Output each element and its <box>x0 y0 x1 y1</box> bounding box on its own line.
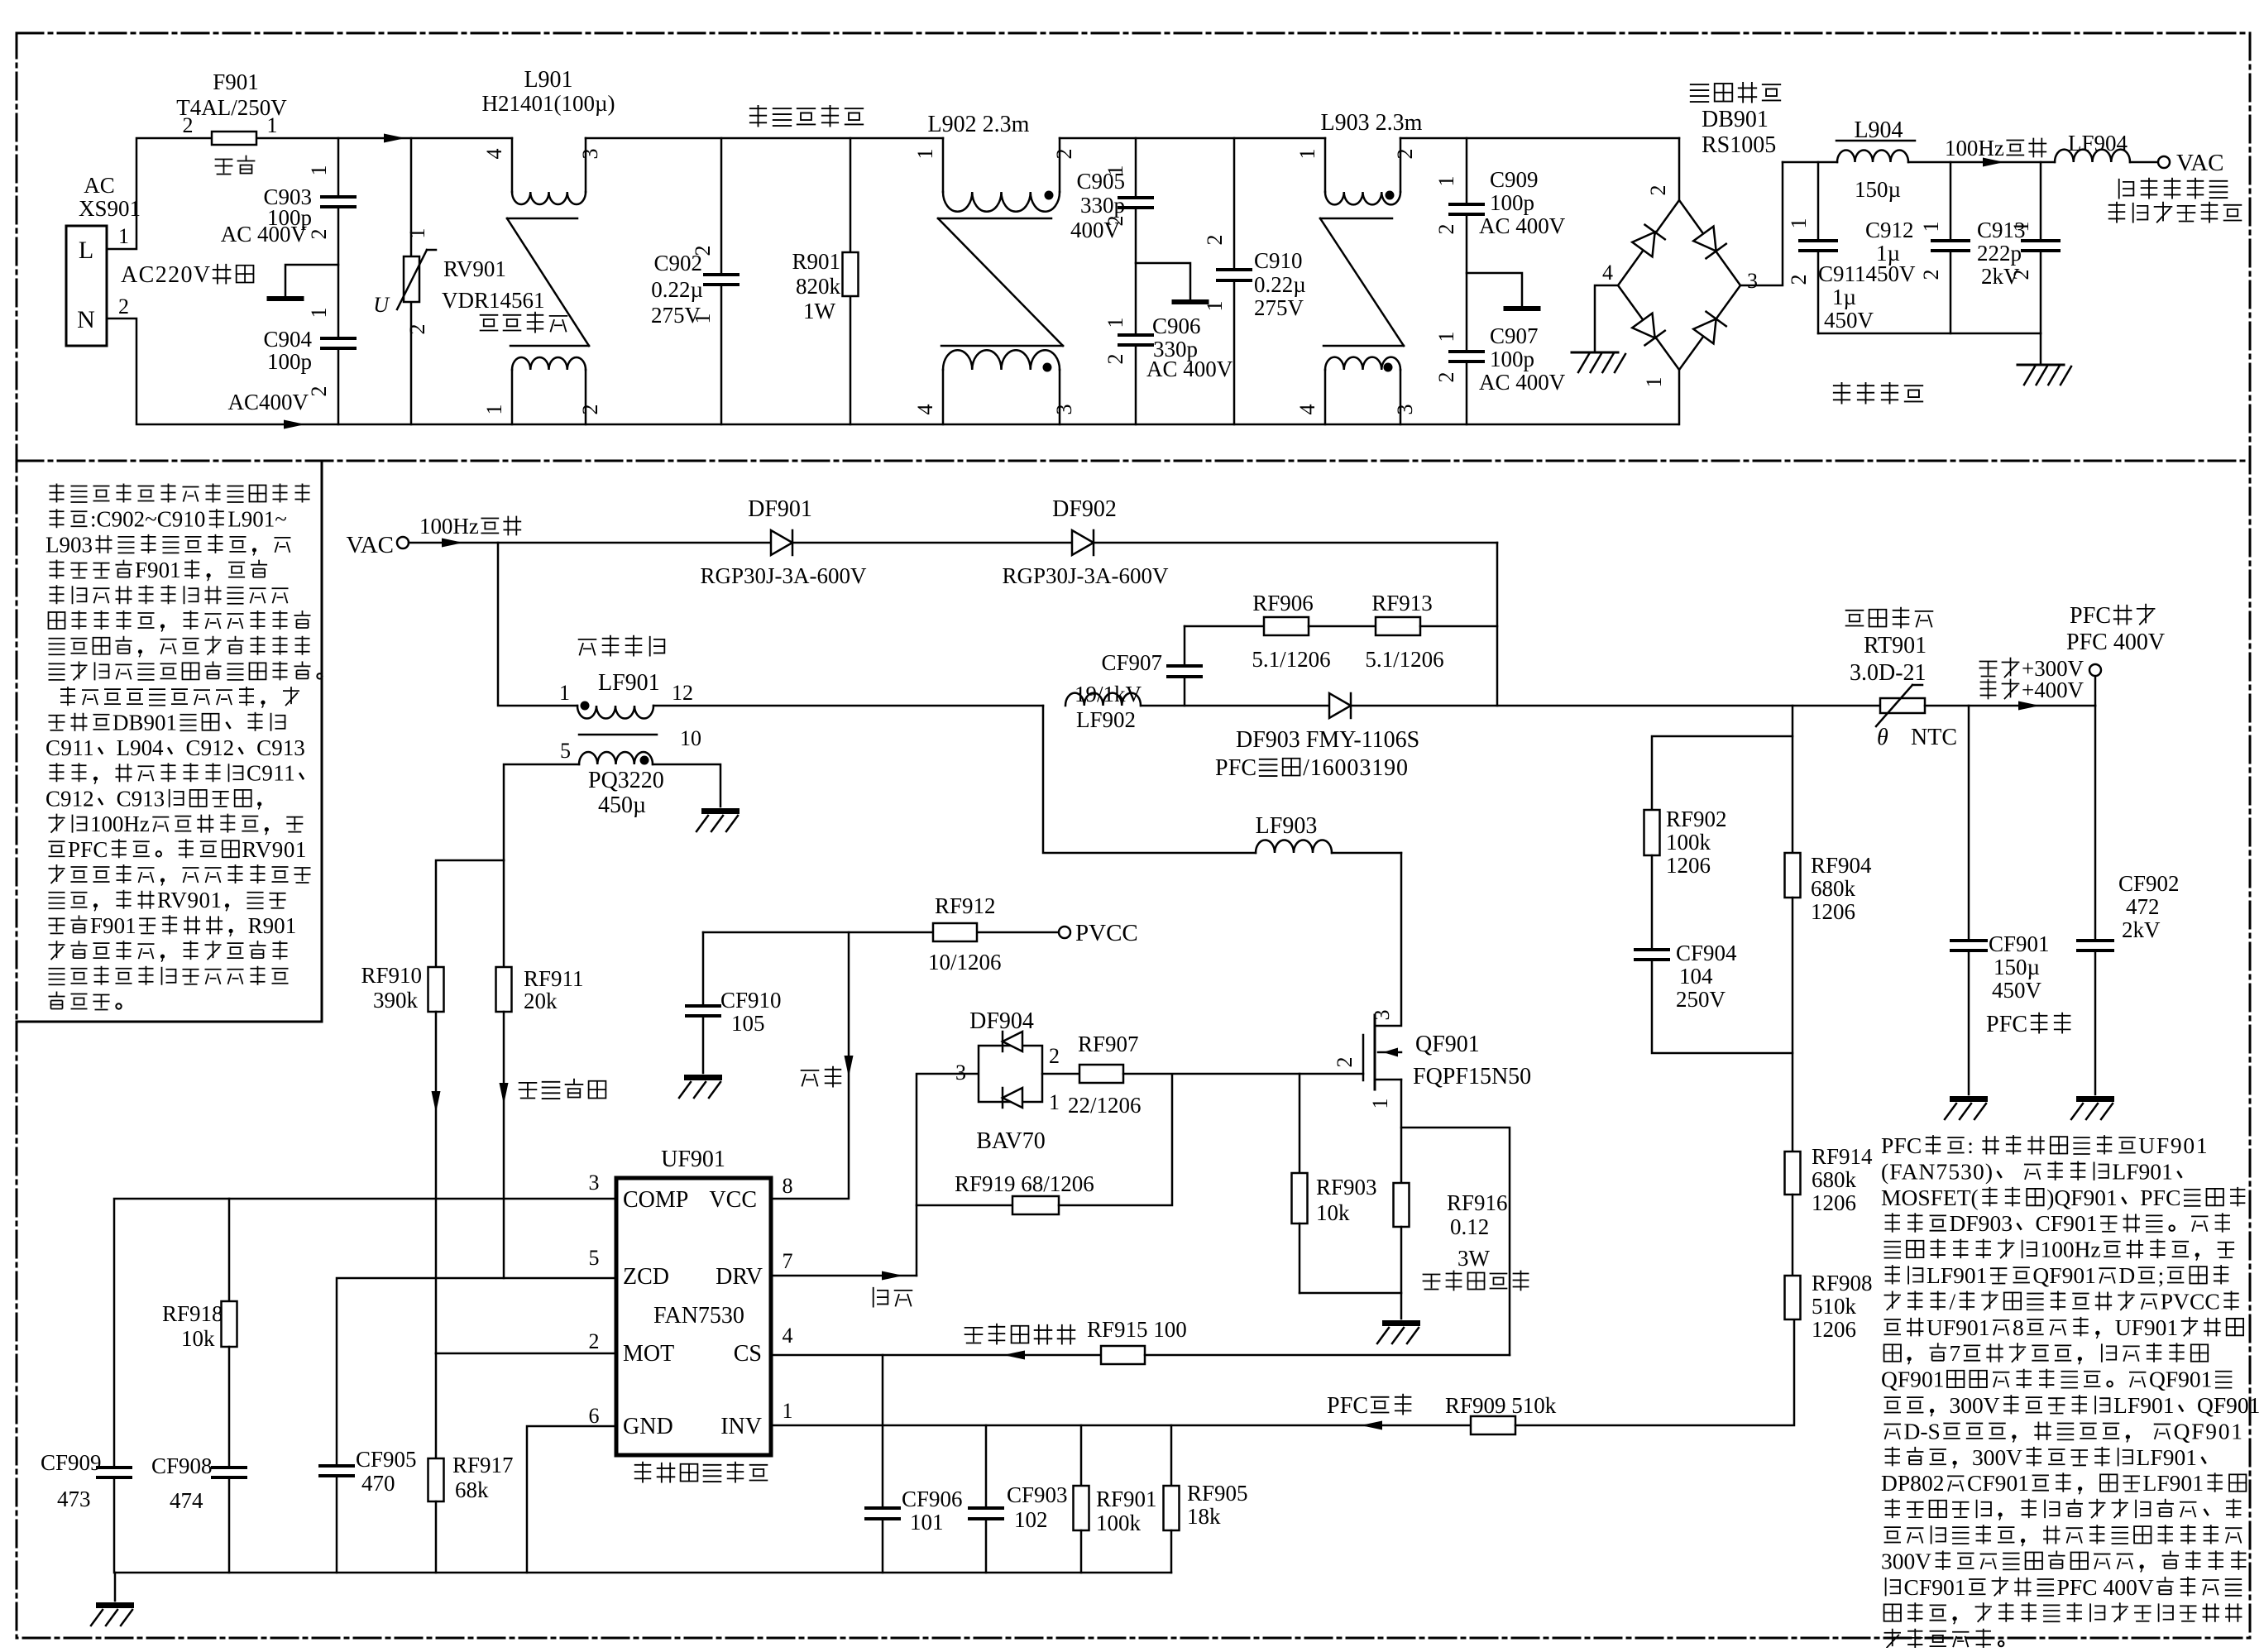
svg-text:CF901: CF901 <box>1989 931 2050 956</box>
svg-text:LF901: LF901 <box>2113 1392 2174 1418</box>
svg-text:2: 2 <box>405 324 429 335</box>
svg-text:8: 8 <box>2013 1314 2024 1340</box>
svg-text:3: 3 <box>578 149 602 160</box>
svg-text:3: 3 <box>589 1171 600 1195</box>
svg-text:2: 2 <box>307 229 331 240</box>
svg-text:CF901: CF901 <box>1904 1574 1966 1600</box>
svg-text:PQ3220: PQ3220 <box>588 768 664 793</box>
svg-text:AC 400V: AC 400V <box>1146 357 1233 381</box>
svg-text:4: 4 <box>482 149 506 160</box>
svg-text:DB901: DB901 <box>1702 107 1769 132</box>
svg-text:C912: C912 <box>45 786 94 811</box>
svg-text:N: N <box>77 306 95 333</box>
svg-text:L901: L901 <box>524 67 572 93</box>
svg-text:20k: 20k <box>524 989 558 1013</box>
svg-text:RF906: RF906 <box>1252 591 1314 615</box>
svg-text:0.22µ: 0.22µ <box>1254 272 1306 297</box>
svg-text:2kV: 2kV <box>2122 917 2161 942</box>
svg-text:2: 2 <box>1052 149 1076 160</box>
svg-text:CF908: CF908 <box>151 1453 213 1478</box>
svg-text:100k: 100k <box>1096 1511 1142 1535</box>
svg-text:0.12: 0.12 <box>1450 1214 1489 1239</box>
svg-text:L903 2.3m: L903 2.3m <box>1321 110 1423 136</box>
svg-text:DP802: DP802 <box>1881 1470 1944 1496</box>
svg-text:(FAN7530): (FAN7530) <box>1881 1158 1993 1184</box>
svg-text:1: 1 <box>1103 318 1127 328</box>
svg-text:820k: 820k <box>796 274 841 299</box>
svg-text:472: 472 <box>2126 894 2160 919</box>
svg-text:5: 5 <box>589 1246 600 1270</box>
svg-text:DF903 FMY-1106S: DF903 FMY-1106S <box>1236 727 1419 753</box>
svg-text:100p: 100p <box>1490 347 1534 371</box>
svg-text:1: 1 <box>1787 218 1811 229</box>
svg-text:RF908: RF908 <box>1812 1271 1873 1295</box>
svg-text:680k: 680k <box>1812 1167 1857 1192</box>
svg-text:/: / <box>1950 1288 1956 1314</box>
svg-text:H21401(100µ): H21401(100µ) <box>481 91 615 116</box>
svg-text:CF902: CF902 <box>2118 871 2180 896</box>
svg-text:C911450V: C911450V <box>1818 261 1916 286</box>
svg-text:7: 7 <box>783 1249 793 1273</box>
svg-text:VAC: VAC <box>2176 150 2224 176</box>
svg-text:1: 1 <box>1295 149 1319 160</box>
svg-text:2: 2 <box>1434 224 1458 235</box>
svg-text:1: 1 <box>1049 1090 1060 1114</box>
svg-text:QF901: QF901 <box>2174 1418 2242 1444</box>
svg-text:U: U <box>373 293 390 317</box>
svg-text:UF901: UF901 <box>2115 1314 2178 1340</box>
svg-text:100p: 100p <box>1490 190 1534 215</box>
svg-text:10k: 10k <box>181 1326 215 1351</box>
svg-text:DRV: DRV <box>716 1264 763 1290</box>
svg-text::: : <box>1967 1132 1974 1158</box>
svg-text:DB901: DB901 <box>112 710 177 735</box>
svg-text:PVCC: PVCC <box>1075 920 1138 946</box>
svg-text:390k: 390k <box>373 988 419 1013</box>
svg-text:3: 3 <box>1747 269 1758 293</box>
svg-text:7: 7 <box>1950 1340 1961 1366</box>
svg-text:1: 1 <box>691 314 715 324</box>
svg-text:AC400V: AC400V <box>227 390 309 414</box>
svg-text:4: 4 <box>1295 405 1319 415</box>
svg-text:2: 2 <box>1103 354 1127 365</box>
svg-text:RF916: RF916 <box>1447 1190 1508 1215</box>
svg-text:2: 2 <box>183 113 194 137</box>
svg-text::C902~C910: :C902~C910 <box>90 507 205 532</box>
svg-text:RF915 100: RF915 100 <box>1087 1317 1187 1342</box>
svg-text:101: 101 <box>910 1510 944 1535</box>
svg-text:PFC: PFC <box>68 837 108 862</box>
svg-text:RF902: RF902 <box>1666 807 1727 831</box>
svg-text:C912: C912 <box>186 735 235 760</box>
svg-text:PVCC: PVCC <box>2161 1288 2220 1314</box>
svg-text:1µ: 1µ <box>1832 285 1856 309</box>
svg-text:PFC: PFC <box>1986 1012 2027 1037</box>
svg-text:CF910: CF910 <box>720 988 782 1013</box>
svg-text:C906: C906 <box>1152 314 1201 338</box>
svg-text:2: 2 <box>1103 216 1127 227</box>
svg-text:LF901: LF901 <box>1927 1262 1987 1288</box>
svg-text:1: 1 <box>783 1399 793 1423</box>
svg-text:FQPF15N50: FQPF15N50 <box>1413 1064 1531 1089</box>
svg-text:18k: 18k <box>1187 1504 1221 1529</box>
svg-text:GND: GND <box>623 1414 673 1439</box>
svg-text:470: 470 <box>361 1471 395 1496</box>
svg-text:CF901: CF901 <box>1967 1470 2029 1496</box>
svg-text:L902 2.3m: L902 2.3m <box>928 112 1030 137</box>
svg-text:1206: 1206 <box>1811 899 1855 924</box>
svg-text:CF906: CF906 <box>902 1487 963 1511</box>
svg-text:100Hz: 100Hz <box>90 812 150 836</box>
svg-text:AC 400V: AC 400V <box>1479 213 1566 238</box>
svg-text:RF912: RF912 <box>935 893 996 918</box>
svg-text:L904: L904 <box>1854 117 1903 143</box>
svg-text:222p: 222p <box>1977 241 2022 266</box>
svg-text:150µ: 150µ <box>1855 177 1901 202</box>
svg-text:2: 2 <box>2009 270 2033 280</box>
svg-text:RF917: RF917 <box>452 1453 514 1477</box>
svg-text:LF901: LF901 <box>2137 1444 2197 1470</box>
svg-text:3: 3 <box>1370 1010 1394 1021</box>
svg-text:L904: L904 <box>117 735 164 760</box>
svg-text:2: 2 <box>1049 1044 1060 1068</box>
svg-text:AC: AC <box>84 173 115 198</box>
svg-text:LF901: LF901 <box>2112 1158 2172 1184</box>
svg-text:2: 2 <box>1787 275 1811 285</box>
svg-text:UF901: UF901 <box>2138 1132 2207 1158</box>
svg-text:QF901: QF901 <box>2149 1367 2212 1392</box>
svg-text:1W: 1W <box>803 299 836 323</box>
svg-text:5.1/1206: 5.1/1206 <box>1252 647 1330 672</box>
svg-text:105: 105 <box>731 1011 765 1036</box>
svg-text:VAC: VAC <box>347 532 395 558</box>
svg-text:FAN7530: FAN7530 <box>653 1303 744 1329</box>
svg-text:6: 6 <box>589 1404 600 1428</box>
svg-text:2: 2 <box>307 386 331 397</box>
svg-text:1: 1 <box>307 165 331 176</box>
svg-text:450µ: 450µ <box>598 792 646 818</box>
svg-text:CF905: CF905 <box>356 1447 417 1472</box>
svg-text:+400V: +400V <box>2022 678 2085 702</box>
svg-text:CF909: CF909 <box>41 1450 102 1475</box>
svg-text:C904: C904 <box>263 327 312 352</box>
svg-text:150µ: 150µ <box>1994 955 2040 979</box>
svg-text:68k: 68k <box>455 1477 489 1502</box>
svg-text:PFC: PFC <box>1881 1132 1922 1158</box>
svg-text:COMP: COMP <box>623 1187 688 1213</box>
svg-text:AC 400V: AC 400V <box>221 222 308 247</box>
svg-text:RF903: RF903 <box>1316 1175 1377 1199</box>
svg-text:PFC: PFC <box>2140 1185 2180 1210</box>
svg-text:CF907: CF907 <box>1101 650 1162 675</box>
svg-text:MOSFET(: MOSFET( <box>1881 1185 1979 1210</box>
svg-text:DF902: DF902 <box>1052 496 1117 522</box>
svg-text:CS: CS <box>734 1341 762 1367</box>
svg-text:2: 2 <box>589 1329 600 1353</box>
svg-text:2: 2 <box>1333 1057 1357 1068</box>
svg-text:100k: 100k <box>1666 830 1711 855</box>
svg-text:2: 2 <box>1646 185 1670 196</box>
svg-text:RF911: RF911 <box>524 966 584 991</box>
svg-text:1: 1 <box>267 113 278 137</box>
svg-text:22/1206: 22/1206 <box>1068 1093 1142 1118</box>
svg-text:1: 1 <box>1103 165 1127 176</box>
svg-text:10k: 10k <box>1316 1200 1350 1225</box>
svg-text:R901: R901 <box>792 249 840 274</box>
svg-text:1: 1 <box>482 405 506 415</box>
svg-text:300V: 300V <box>1972 1444 2022 1470</box>
svg-text:ZCD: ZCD <box>623 1264 669 1290</box>
svg-text:RF918: RF918 <box>162 1301 223 1326</box>
svg-text:2: 2 <box>691 246 715 256</box>
svg-text:RF914: RF914 <box>1812 1144 1873 1169</box>
svg-text:1: 1 <box>405 228 429 239</box>
svg-text:2: 2 <box>118 294 129 318</box>
svg-text:1: 1 <box>559 681 570 705</box>
svg-text:RS1005: RS1005 <box>1702 132 1776 158</box>
svg-text:PFC 400V: PFC 400V <box>2057 1574 2154 1600</box>
svg-text:DF901: DF901 <box>748 496 812 522</box>
svg-text:1: 1 <box>1434 332 1458 342</box>
svg-text:1: 1 <box>1919 222 1943 232</box>
svg-text:C911: C911 <box>45 735 94 760</box>
svg-text:10/1206: 10/1206 <box>928 950 1002 974</box>
svg-text:RF919 68/1206: RF919 68/1206 <box>955 1171 1094 1196</box>
svg-text:12: 12 <box>672 681 693 705</box>
svg-text:CF904: CF904 <box>1676 941 1737 965</box>
svg-text:AC 400V: AC 400V <box>1479 370 1566 395</box>
svg-text:UF901: UF901 <box>661 1147 725 1172</box>
svg-text:MOT: MOT <box>623 1341 674 1367</box>
svg-text:300V: 300V <box>1950 1392 2000 1418</box>
svg-text:VDR14561: VDR14561 <box>442 288 545 313</box>
svg-text:4: 4 <box>913 405 937 415</box>
svg-text:1: 1 <box>1434 176 1458 187</box>
svg-text:5.1/1206: 5.1/1206 <box>1365 647 1443 672</box>
svg-text:QF901: QF901 <box>2197 1392 2260 1418</box>
svg-text:F901: F901 <box>135 558 181 582</box>
svg-text:θ: θ <box>1877 725 1888 750</box>
svg-text:474: 474 <box>170 1488 203 1513</box>
svg-text:450V: 450V <box>1824 308 1874 333</box>
svg-text:DF904: DF904 <box>969 1008 1034 1034</box>
svg-text:RV901: RV901 <box>242 837 306 862</box>
svg-text:2: 2 <box>578 405 602 415</box>
svg-text:LF902: LF902 <box>1076 707 1136 732</box>
svg-text:F901: F901 <box>90 913 136 938</box>
svg-text:QF901: QF901 <box>1415 1032 1480 1057</box>
svg-text:3: 3 <box>1393 405 1417 415</box>
svg-text:DF903: DF903 <box>1950 1210 2013 1236</box>
svg-text:LF903: LF903 <box>1256 813 1318 839</box>
svg-text:1: 1 <box>1642 377 1666 388</box>
svg-text:CF903: CF903 <box>1007 1482 1068 1507</box>
svg-text:450V: 450V <box>1992 978 2042 1003</box>
svg-text:1206: 1206 <box>1812 1190 1856 1215</box>
svg-text:RF901: RF901 <box>1096 1487 1157 1511</box>
svg-text:RV901: RV901 <box>157 888 222 912</box>
svg-text:100Hz: 100Hz <box>1945 136 2004 160</box>
svg-text:4: 4 <box>783 1324 793 1348</box>
svg-text:RF910: RF910 <box>361 963 422 988</box>
svg-text:473: 473 <box>57 1487 91 1511</box>
svg-text:QF901: QF901 <box>1881 1367 1944 1392</box>
svg-text:RT901: RT901 <box>1864 633 1927 658</box>
svg-text:PFC: PFC <box>2070 603 2111 629</box>
svg-text:C911: C911 <box>247 761 295 786</box>
svg-text:330p: 330p <box>1080 193 1125 218</box>
svg-text:100Hz: 100Hz <box>419 514 479 539</box>
svg-text:AC220V: AC220V <box>121 262 210 288</box>
svg-text:RV901: RV901 <box>443 256 506 281</box>
svg-text:8: 8 <box>783 1174 793 1198</box>
svg-text:RF913: RF913 <box>1371 591 1433 615</box>
svg-text:1: 1 <box>1203 301 1227 312</box>
svg-text:C910: C910 <box>1254 248 1303 273</box>
svg-text:PFC 400V: PFC 400V <box>2066 630 2165 655</box>
svg-text:C913: C913 <box>256 735 305 760</box>
svg-text:D: D <box>2118 1262 2135 1288</box>
svg-text:C913: C913 <box>117 786 165 811</box>
svg-text:LF901: LF901 <box>2143 1470 2204 1496</box>
svg-text:2: 2 <box>1203 235 1227 246</box>
svg-text:L: L <box>79 237 93 264</box>
svg-text:/16003190: /16003190 <box>1303 755 1408 781</box>
svg-text:275V: 275V <box>1254 295 1304 320</box>
svg-text:RGP30J-3A-600V: RGP30J-3A-600V <box>700 563 867 588</box>
svg-text:C912: C912 <box>1865 218 1914 242</box>
svg-text:680k: 680k <box>1811 876 1856 901</box>
svg-text:L901~: L901~ <box>227 507 287 532</box>
svg-text:3: 3 <box>1052 405 1076 415</box>
svg-text:NTC: NTC <box>1911 725 1957 750</box>
svg-text:RF907: RF907 <box>1078 1032 1139 1056</box>
svg-text:250V: 250V <box>1676 987 1726 1012</box>
svg-text:1: 1 <box>307 308 331 318</box>
svg-text:C907: C907 <box>1490 323 1539 348</box>
svg-text:0.22µ: 0.22µ <box>651 277 703 302</box>
svg-text:XS901: XS901 <box>79 196 141 221</box>
svg-text:102: 102 <box>1014 1507 1048 1532</box>
svg-text:1206: 1206 <box>1812 1317 1856 1342</box>
svg-text:3: 3 <box>955 1061 966 1085</box>
svg-text:L903: L903 <box>45 532 93 557</box>
svg-text:104: 104 <box>1679 964 1713 989</box>
svg-text:1: 1 <box>1368 1099 1392 1109</box>
svg-text:RF909 510k: RF909 510k <box>1445 1393 1557 1418</box>
svg-text:INV: INV <box>720 1414 762 1439</box>
svg-text:PFC: PFC <box>1327 1393 1368 1419</box>
svg-text:1: 1 <box>913 149 937 160</box>
svg-text:2: 2 <box>1919 270 1943 280</box>
svg-text:R901: R901 <box>248 913 297 938</box>
svg-text:1206: 1206 <box>1666 853 1711 878</box>
svg-text:LF904: LF904 <box>2068 131 2128 156</box>
svg-text:RF904: RF904 <box>1811 853 1872 878</box>
svg-text:)QF901: )QF901 <box>2046 1185 2118 1210</box>
svg-text:5: 5 <box>560 739 571 763</box>
svg-text:F901: F901 <box>213 69 259 94</box>
svg-text:510k: 510k <box>1812 1294 1857 1319</box>
svg-text:VCC: VCC <box>709 1187 757 1213</box>
svg-text:CF901: CF901 <box>2035 1210 2097 1236</box>
svg-text:2: 2 <box>1434 372 1458 383</box>
svg-text:RF905: RF905 <box>1187 1481 1248 1506</box>
svg-text:100Hz: 100Hz <box>2041 1237 2101 1262</box>
svg-text:PFC: PFC <box>1215 755 1256 781</box>
svg-text:C909: C909 <box>1490 167 1539 192</box>
svg-text:QF901: QF901 <box>2032 1262 2095 1288</box>
svg-text:;: ; <box>2158 1262 2165 1288</box>
svg-text:3W: 3W <box>1457 1246 1491 1271</box>
svg-text:UF901: UF901 <box>1927 1314 1989 1340</box>
svg-text:10: 10 <box>680 726 701 750</box>
svg-text:BAV70: BAV70 <box>976 1128 1046 1154</box>
svg-text:RGP30J-3A-600V: RGP30J-3A-600V <box>1002 563 1169 588</box>
svg-text:3.0D-21: 3.0D-21 <box>1850 660 1927 686</box>
svg-text:300V: 300V <box>1881 1548 1931 1573</box>
svg-text:1: 1 <box>2009 222 2033 232</box>
svg-text:4: 4 <box>1602 261 1613 285</box>
svg-text:100p: 100p <box>267 349 312 374</box>
svg-text:LF901: LF901 <box>598 670 660 696</box>
svg-text:2: 2 <box>1393 149 1417 160</box>
svg-text:D-S: D-S <box>1904 1418 1941 1444</box>
svg-text:1: 1 <box>118 224 129 248</box>
